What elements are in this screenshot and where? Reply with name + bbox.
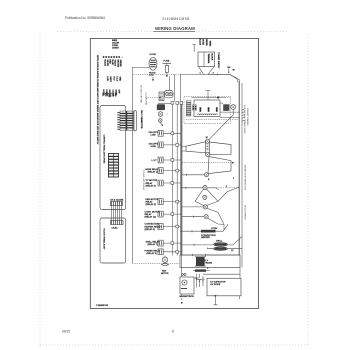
svg-text:BLACK: BLACK [103, 60, 106, 67]
svg-text:MONI RELAY: MONI RELAY [146, 168, 160, 171]
legend vertical color names group 1 [103, 60, 121, 68]
lozenge C funnel [208, 157, 231, 174]
svg-text:(RELAY 12): (RELAY 12) [145, 216, 157, 219]
svg-text:TOUCH PANEL ASSY: TOUCH PANEL ASSY [103, 228, 106, 250]
svg-text:TERMINAL: TERMINAL [207, 54, 210, 65]
svg-text:NEUT: NEUT [109, 77, 111, 83]
right neutral bus wire [241, 83, 243, 268]
svg-text:HEATER: HEATER [201, 236, 210, 239]
lozenge B [210, 142, 231, 155]
line cord terminal block [192, 39, 219, 70]
filament winding bar [193, 268, 210, 272]
bus vertical line 3 [180, 104, 182, 256]
dashed wire to noise filter [146, 97, 161, 99]
svg-text:MOTOR: MOTOR [161, 273, 169, 275]
svg-text:TRANS: TRANS [205, 262, 213, 265]
svg-text:RELAY: RELAY [145, 213, 153, 216]
svg-text:LO-V: LO-V [116, 77, 118, 82]
junction tick on c4 wire [185, 187, 187, 189]
svg-text:RELAY: RELAY [146, 200, 154, 203]
svg-text:(RELAY 4): (RELAY 4) [146, 184, 157, 187]
motor circle c7 [204, 215, 208, 219]
svg-text:WHITE: WHITE [106, 60, 108, 67]
interlock dashed box [184, 97, 231, 124]
diamond lower exit [207, 208, 224, 230]
power supply assy box bottom [132, 262, 179, 264]
relay row CONV. MOTOR [145, 211, 182, 218]
svg-text:BLACK: BLACK [198, 39, 201, 46]
svg-text:NOTE: DOOR IS SHOWN CLOSED AND: NOTE: DOOR IS SHOWN CLOSED AND UNIT IS O… [96, 55, 99, 145]
junction dot [215, 295, 217, 297]
hv box right [207, 278, 241, 296]
svg-text:RELAY: RELAY [146, 182, 154, 185]
svg-text:H.V DIODE: H.V DIODE [210, 284, 221, 286]
svg-text:(RELAY 3): (RELAY 3) [147, 252, 158, 255]
wire to c6 [182, 206, 203, 208]
svg-text:FUSE: FUSE [164, 61, 170, 63]
connector CN-E pin hatching [112, 202, 122, 206]
wire to c3 [182, 174, 205, 176]
connector J1 pin labels [101, 93, 116, 98]
svg-text:CHART: CHART [112, 46, 120, 49]
svg-text:(RELAY 1): (RELAY 1) [148, 171, 159, 174]
fan motor circle bottom left [161, 256, 169, 275]
motor circle c6 [203, 205, 207, 209]
motor circle c5 [203, 195, 207, 199]
hv transformer core [195, 257, 213, 266]
cn-b labels [192, 105, 197, 112]
svg-text:POWER RELAY: POWER RELAY [145, 249, 161, 252]
legend color dots row [103, 56, 124, 59]
svg-text:GRILL: GRILL [216, 241, 223, 243]
svg-text:TCO: TCO [149, 75, 154, 77]
svg-text:YELLW: YELLW [114, 60, 116, 67]
relay row GRILL RELAY [146, 240, 182, 246]
svg-text:LOW VOLTAGE TRANSFORMER: LOW VOLTAGE TRANSFORMER [243, 105, 246, 134]
svg-text:HIGH: HIGH [151, 146, 157, 148]
page fold dotted line bottom [40, 344, 308, 346]
svg-text:WHITE: WHITE [202, 39, 204, 46]
chassis bottom junction ticks [192, 254, 205, 256]
svg-text:HEATER RELAY: HEATER RELAY [145, 225, 162, 228]
hv capacitor diode cluster [195, 274, 205, 288]
relay row CONVECTION [145, 224, 182, 231]
ticks between c1 c2 [207, 145, 209, 150]
motor circle c1 [205, 139, 209, 143]
diamond upper [195, 189, 218, 206]
touch panel assy box [100, 218, 126, 263]
svg-text:CN-B1: CN-B1 [192, 105, 194, 112]
svg-text:LIVE: LIVE [106, 77, 108, 82]
convection heater hatched bar [181, 224, 228, 239]
main chassis box [180, 74, 240, 255]
wire above hv box [203, 268, 240, 279]
svg-text:CONTROL PANEL ASSY (PWB): CONTROL PANEL ASSY (PWB) [102, 135, 105, 164]
svg-text:(RELAY 8): (RELAY 8) [145, 228, 156, 231]
svg-text:CN-C CONNECTOR: CN-C CONNECTOR [140, 110, 142, 129]
svg-text:WIRING DIAGRAM: WIRING DIAGRAM [155, 26, 195, 31]
svg-text:Publication No. 5995566364: Publication No. 5995566364 [65, 16, 105, 20]
svg-text:EI30BM6CMSB: EI30BM6CMSB [163, 17, 190, 21]
relay row MONI RELAY [146, 168, 182, 174]
interlock switch assembly box [194, 91, 220, 117]
terminal block labels [207, 53, 219, 70]
relay row FAN MOTOR [146, 198, 182, 206]
motor circle c3 [204, 173, 208, 177]
connector ladder right [127, 111, 136, 131]
bus junction squares [171, 132, 179, 253]
svg-text:L.V.T: L.V.T [152, 160, 158, 162]
title underline [154, 30, 196, 32]
wire to c4 and right [181, 188, 219, 190]
svg-text:BLOCK: BLOCK [211, 54, 213, 61]
svg-text:C15M05Y02: C15M05Y02 [96, 305, 109, 307]
svg-text:HOT AIR CONV FAN: HOT AIR CONV FAN [140, 85, 143, 103]
svg-text:PRIMARY WINDING: PRIMARY WINDING [246, 108, 249, 126]
junction dot node [217, 96, 219, 98]
svg-text:COOLING FAN: COOLING FAN [145, 92, 148, 106]
legend heading block [112, 40, 120, 49]
wire TCO left and down the long left rail [132, 68, 149, 264]
grill heater bars [181, 237, 242, 253]
bus vertical line 1 [171, 104, 173, 256]
monitor switch dark block [223, 104, 229, 111]
dashed wire mid [182, 162, 234, 164]
svg-text:POWER SUPPLY: POWER SUPPLY [217, 53, 219, 70]
relay row L.V.T [152, 157, 182, 163]
svg-text:09/15: 09/15 [62, 330, 70, 334]
control panel assy box [100, 106, 126, 210]
bus top connector squares [171, 102, 183, 105]
svg-text:CONV: CONV [211, 228, 218, 230]
page fold dotted line top [57, 31, 287, 33]
svg-text:BROWN: BROWN [116, 60, 118, 68]
svg-text:BLUE: BLUE [111, 60, 113, 66]
wires control panel to touch panel [112, 206, 122, 221]
svg-text:MAGNETRON THERMOSTAT: MAGNETRON THERMOSTAT [244, 165, 247, 191]
wire to c7 [182, 216, 204, 218]
wire noise filter to line / bus riser [169, 74, 174, 101]
svg-text:RED: RED [109, 60, 111, 65]
svg-text:CN-E1: CN-E1 [112, 228, 119, 230]
noise filter block [159, 91, 173, 101]
svg-text:CN-B2: CN-B2 [194, 105, 196, 112]
keypad matrix ladder [109, 154, 119, 178]
thermal cutout oval [132, 54, 157, 263]
wire above interlock with junction dot [192, 97, 226, 99]
fuse [163, 61, 172, 78]
svg-text:HOOD: HOOD [150, 54, 157, 56]
page fold dotted line right [307, 34, 309, 345]
svg-text:FAN MOTOR: FAN MOTOR [146, 198, 159, 201]
junction tick on line wire [216, 73, 218, 75]
right bus double vertical [238, 81, 240, 255]
relay row ON-OFF2 [149, 142, 182, 148]
dashed line under pwb [186, 119, 238, 121]
power cord wire color labels [198, 39, 210, 47]
svg-text:(RELAY 5): (RELAY 5) [146, 203, 157, 206]
wire line side to right bus [208, 74, 238, 82]
left part of chassis top dashed [134, 73, 181, 75]
cooling fan motor circle [231, 105, 236, 110]
ground wires to bottom [181, 294, 183, 304]
wires interlock to bus [220, 112, 240, 117]
lozenge A hood fan winding [186, 142, 206, 153]
ground wire center [214, 296, 218, 305]
page fold dotted line left [39, 34, 41, 345]
svg-text:GREEN: GREEN [119, 60, 121, 68]
relay row POWER RELAY [145, 249, 182, 255]
svg-text:GND: GND [119, 77, 121, 82]
varistor cluster [157, 103, 172, 126]
connector CN-E1 pin hatching [112, 221, 122, 225]
legend vertical names group 3 [102, 90, 120, 98]
connector ladder mid [186, 101, 191, 116]
wire left to lozenge A [182, 147, 186, 152]
motor circle c2 [205, 152, 209, 156]
hv transformer box below chassis [180, 255, 240, 268]
bus hatch ticks [242, 109, 245, 121]
left inner bus vertical [181, 105, 183, 256]
legend vertical names group 2 [106, 77, 121, 83]
wire c7 to heater [208, 218, 224, 224]
svg-text:HOOD EXHAUST: HOOD EXHAUST [244, 205, 247, 221]
wires from power cord plug skirt [199, 67, 215, 75]
svg-text:GREEN: GREEN [205, 39, 207, 47]
relay row T.T MOTOR [146, 180, 182, 187]
diagram outer border [90, 39, 258, 309]
svg-text:HI-V: HI-V [113, 77, 115, 82]
svg-text:8: 8 [172, 330, 174, 334]
ground stub right [239, 296, 241, 299]
wire from c1 up right [209, 110, 233, 140]
relay row ON-OFF1 [149, 130, 182, 136]
magnetron box [180, 255, 195, 298]
svg-text:POWER SUPPLY ASSY: POWER SUPPLY ASSY [142, 170, 145, 191]
svg-text:(RELAY 7): (RELAY 7) [148, 243, 159, 246]
motor circle c4 [203, 186, 207, 190]
connector ladder left [117, 111, 126, 131]
touch panel connector [111, 221, 124, 225]
bus vertical line 2 [176, 104, 178, 256]
svg-text:TERM: TERM [208, 41, 210, 47]
